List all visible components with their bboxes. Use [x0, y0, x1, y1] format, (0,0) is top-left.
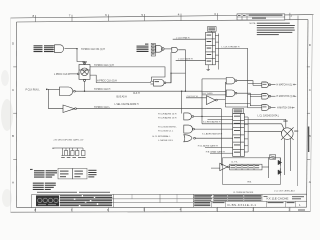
svg-text:CL TTL: CL TTL — [231, 162, 239, 164]
legend strip left edge — [31, 195, 33, 208]
wire flip-flop clear stub — [84, 81, 86, 91]
termination network R-pack — [230, 164, 262, 170]
frame top — [17, 20, 309, 22]
wire register E7 input C — [176, 59, 206, 61]
legend divider x113.5 — [113, 194, 115, 207]
wire flip-flop Q output — [90, 67, 165, 82]
legend strip top line — [32, 193, 308, 195]
wire E4 long vertical to comparator — [221, 109, 223, 165]
wire E6 lower branch — [170, 52, 172, 83]
legend row line 1 — [60, 198, 194, 200]
node on E3 wire 2 — [181, 91, 182, 92]
right text column — [88, 170, 96, 178]
sheet outer right edge — [310, 15, 312, 212]
logo specks — [38, 203, 46, 206]
wire E16 output — [194, 128, 232, 130]
svg-text:L CLK STROBE H: L CLK STROBE H — [222, 47, 240, 49]
wire decoupling bus — [52, 147, 83, 149]
wire to gate E3 — [48, 88, 60, 90]
wire stub to R-gate 3 input b — [248, 107, 262, 109]
title block left edge — [192, 194, 194, 207]
svg-text:H PROC CLK (0) H: H PROC CLK (0) H — [97, 81, 117, 83]
E18 right pin bus — [244, 117, 248, 152]
wire labeled row 3 — [210, 152, 233, 154]
svg-text:CLK DLY H: CLK DLY H — [187, 96, 199, 98]
svg-text:H MATCH A (1) H: H MATCH A (1) H — [277, 84, 295, 87]
connector bar pin marks — [152, 44, 155, 54]
title block dividers lower — [212, 201, 296, 207]
bottom zone ticks — [36, 207, 290, 212]
diode flag D2 — [278, 168, 282, 175]
ground stub G1 — [61, 148, 64, 156]
svg-text:B: B — [12, 134, 14, 138]
svg-text:H CLR ADRS 14 H: H CLR ADRS 14 H — [158, 113, 177, 116]
E7 label text — [208, 28, 215, 31]
wire E6 output — [178, 50, 185, 73]
title block mid hline — [193, 200, 306, 202]
wire stub to R-gate 2 input b — [250, 96, 261, 98]
R-pack text marks — [230, 165, 259, 168]
top zone numbers — [33, 12, 217, 18]
diode flag D1 — [278, 158, 282, 166]
part table cell 1 — [58, 168, 72, 179]
legend divider x160 — [159, 194, 161, 202]
gate E16 (NAND) — [184, 125, 195, 133]
inner column line right — [296, 16, 299, 186]
title block corner cell marks — [292, 195, 304, 198]
wire E9 output up — [217, 83, 226, 100]
svg-text:NOTE:: NOTE: — [250, 23, 257, 25]
wire E9 branch down — [224, 100, 226, 108]
wire E7 output — [219, 47, 248, 49]
gate E15 (NAND) — [184, 113, 194, 120]
wire comparator input 2 — [211, 167, 220, 169]
node at bus — [201, 116, 202, 117]
inset box outline — [223, 158, 281, 185]
wire E15 output — [194, 115, 233, 117]
wire E12 output — [271, 84, 276, 86]
wire down to E15 — [181, 91, 183, 113]
wire K1 down leg 1 — [284, 139, 286, 175]
wire stub to R-gate 1 input a — [248, 83, 262, 85]
wire X input row — [202, 123, 282, 125]
svg-text:H CLR ADRS 15 H: H CLR ADRS 15 H — [158, 117, 177, 120]
gate E11 (NAND) — [226, 90, 237, 96]
wire branch down to E4 — [49, 89, 63, 108]
gate E1 (multi-input NAND) — [54, 45, 64, 53]
E18 cell marks — [234, 116, 240, 153]
gate E14 (right NAND 3) — [262, 105, 271, 111]
wire E17 output — [195, 137, 232, 139]
frame bottom — [17, 206, 307, 208]
frame left — [16, 22, 18, 208]
flip-flop type label — [82, 61, 87, 62]
svg-text:H CL BUS C1 L: H CL BUS C1 L — [158, 130, 174, 132]
E12 internal marks — [263, 81, 267, 84]
E7 ground stub — [206, 65, 210, 71]
wire E10 input — [202, 78, 226, 80]
sheet outer left edge — [10, 18, 12, 212]
capacitor C2 — [71, 148, 74, 156]
left zone ticks — [13, 67, 16, 160]
wire K1 down leg 2 — [290, 139, 292, 172]
gate E5 (AND) — [156, 46, 164, 53]
wire E13 output — [271, 95, 276, 97]
wire flip-flop D input — [69, 73, 78, 75]
wire E18 to X — [248, 131, 281, 133]
node clear stub — [84, 91, 85, 92]
wire labeled row 2 — [205, 146, 233, 148]
capacitor C4 — [81, 148, 85, 156]
legend divider x177 — [176, 194, 178, 202]
svg-text:L CLK GATE H: L CLK GATE H — [178, 58, 193, 61]
wire E9 input — [186, 97, 207, 99]
gate E9 (buffer) — [207, 96, 218, 105]
wire stub to R-gate 1 input b — [253, 84, 262, 86]
right margin vertical microtext — [308, 127, 309, 153]
svg-text:L SEL CACHE ADRS H: L SEL CACHE ADRS H — [115, 103, 139, 106]
svg-text:A: A — [12, 180, 14, 184]
capacitor C1 — [64, 148, 67, 156]
wire bus vertical x247.7 — [247, 48, 249, 107]
svg-text:+5V DECOUPLING CAPS +5V: +5V DECOUPLING CAPS +5V — [53, 139, 84, 142]
wire E3 output — [75, 90, 202, 92]
node E8 to E3 wire — [185, 91, 186, 92]
svg-text:H CL BUS MSYN L: H CL BUS MSYN L — [158, 126, 178, 128]
E18 label marks — [234, 110, 243, 113]
wire stub to R-gate 2 input a — [248, 94, 262, 96]
table header mark — [30, 169, 33, 170]
legend caption row above strip — [37, 191, 77, 194]
E7 label box — [208, 27, 217, 32]
svg-text:H PROC CLK H: H PROC CLK H — [94, 89, 111, 91]
gate E3 (NAND) — [60, 87, 76, 96]
svg-text:H CL ADRS GATE H: H CL ADRS GATE H — [198, 144, 218, 147]
sheet top edge line — [11, 15, 314, 18]
svg-text:H PROC CLK ON (1) H: H PROC CLK ON (1) H — [81, 49, 105, 51]
wire E11 output — [237, 93, 250, 96]
pin label above K1 — [283, 120, 287, 123]
E8 internal mark — [155, 80, 159, 83]
right zone ticks — [307, 67, 310, 160]
svg-text:X L REG ADRS H: X L REG ADRS H — [203, 120, 221, 123]
svg-text:L PROC CLK L: L PROC CLK L — [54, 74, 70, 76]
wire x250.3 drop — [249, 97, 251, 106]
title block dividers upper — [214, 194, 263, 201]
wire register E7 input A — [173, 38, 206, 40]
svg-text:L CACHE ON L: L CACHE ON L — [158, 139, 174, 142]
svg-text:L CLK ENB H: L CLK ENB H — [176, 37, 190, 39]
frame right — [307, 20, 308, 208]
legend divider x132 — [131, 194, 133, 199]
wire E4 output — [76, 108, 221, 110]
wire E5 to E6 — [164, 48, 172, 50]
wire flip-flop Q-bar output — [90, 75, 151, 82]
svg-text:H MATCH OK L: H MATCH OK L — [277, 106, 294, 109]
wire network to vertical — [262, 166, 269, 168]
register E18 body — [233, 113, 245, 156]
right zone letters — [309, 43, 312, 184]
E13 internal marks — [263, 92, 267, 95]
svg-text:L CL CACHE DATA L: L CL CACHE DATA L — [258, 114, 280, 117]
gate E8 (NAND mid) — [151, 80, 166, 87]
wire E14 output — [271, 106, 276, 108]
E7 cell pin marks — [207, 35, 212, 62]
signal list for E5 — [137, 44, 149, 52]
capacitor value labels — [61, 156, 85, 159]
corner scan mark — [298, 210, 305, 211]
flip-flop E2 — [77, 62, 90, 81]
wire branch to E14 input a — [225, 104, 251, 106]
svg-text:H PROC CLK L: H PROC CLK L — [94, 107, 111, 109]
top zone ticks — [36, 13, 290, 22]
sheet bottom edge line — [11, 210, 311, 213]
E7 right side bus — [215, 34, 218, 70]
scan smudge left margin — [1, 70, 13, 207]
wire E11 input a — [202, 90, 226, 92]
ground stub G2 — [68, 148, 71, 156]
legend logo dark block — [36, 195, 59, 206]
connector K1 (cross circle) — [281, 124, 294, 140]
node at E1 output — [76, 48, 77, 49]
register E18 label box — [233, 109, 244, 114]
vertical bus wire x202 — [201, 79, 203, 124]
wire branch to E14 input b — [225, 106, 247, 108]
part table cell 2 — [72, 168, 87, 179]
part list group 1 — [34, 170, 57, 177]
wire E10 output — [237, 81, 253, 86]
svg-text:DLY 50NS: DLY 50NS — [203, 93, 214, 95]
svg-text:D-BS-KX11E-0-1: D-BS-KX11E-0-1 — [228, 203, 257, 207]
wire E8 output loop — [166, 73, 186, 91]
wire E18 top row to X left part — [208, 118, 233, 120]
legend fine print block — [60, 195, 112, 206]
svg-text:H MATCH B (1) H: H MATCH B (1) H — [277, 95, 296, 98]
gate E17 (OR) — [184, 135, 196, 142]
wire E11 input b — [202, 94, 226, 96]
wire label box to body — [211, 31, 213, 32]
gate E13 (right NAND 2) — [262, 93, 271, 99]
gate E6 (AND) — [172, 47, 178, 52]
gate E1 input signal list — [34, 45, 54, 52]
wire to flip-flop preset — [77, 49, 85, 64]
part list group 2 — [33, 183, 56, 190]
legend row line 2 — [60, 202, 194, 204]
svg-text:L CL OUT LEVEL ADJ: L CL OUT LEVEL ADJ — [274, 189, 295, 192]
title block field line — [193, 197, 262, 199]
bottom zone numbers — [34, 207, 290, 212]
gate E4 (inverter) — [63, 105, 76, 113]
register E7 body — [206, 32, 216, 64]
wire E18 top row to X — [244, 118, 285, 120]
svg-text:H CL INTERNAL L: H CL INTERNAL L — [153, 135, 172, 138]
title block fine print — [194, 195, 294, 206]
svg-text:CL TERM NETWORK: CL TERM NETWORK — [233, 192, 254, 194]
title cell small mark — [264, 195, 268, 198]
svg-text:P CLK RUN L: P CLK RUN L — [26, 89, 41, 91]
wire stub to R-gate 3 input a — [250, 105, 261, 107]
wire vertical inside box — [268, 157, 270, 178]
connector bar J1 — [151, 43, 155, 56]
svg-text:X L ADRS MATCH H: X L ADRS MATCH H — [202, 132, 223, 135]
cell text marks — [60, 171, 83, 178]
trimmer R32 — [270, 155, 276, 159]
wire E1 output — [65, 48, 78, 50]
svg-text:CLK H: CLK H — [133, 93, 140, 95]
pin label right of K1 — [294, 130, 298, 133]
svg-text:BUS A5 H: BUS A5 H — [117, 95, 128, 98]
left zone letters — [12, 42, 15, 185]
gate E10 (NAND) — [226, 78, 237, 84]
svg-text:KX 11E CACHE: KX 11E CACHE — [267, 197, 289, 201]
E14 internal marks — [263, 103, 267, 106]
svg-text:A: A — [309, 180, 311, 184]
comparator A1 — [220, 163, 229, 170]
capacitor C3 — [76, 148, 79, 156]
logo circles — [38, 198, 59, 202]
node junction — [46, 89, 48, 91]
svg-text:H B CHAN GATE H: H B CHAN GATE H — [206, 150, 225, 153]
junction X entry vertical — [285, 119, 287, 128]
gate E12 (right NAND 1) — [262, 82, 271, 88]
svg-text:H PROC CLK (1) H: H PROC CLK (1) H — [94, 65, 114, 67]
